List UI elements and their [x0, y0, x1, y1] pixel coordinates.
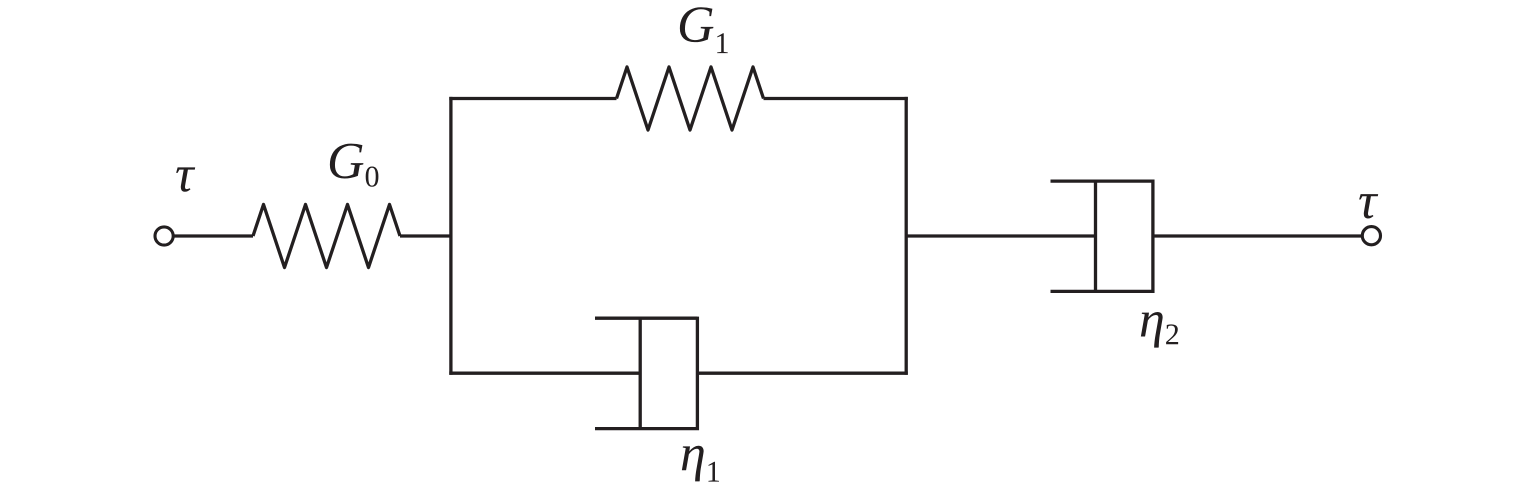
spring G0 — [253, 205, 400, 268]
wire from left terminal to spring G0 — [170, 234, 253, 237]
terminal (right) — [1362, 227, 1380, 245]
wire: right vertical of parallel branch — [905, 97, 908, 375]
label tau (right terminal) — [1359, 194, 1378, 218]
dashpot eta1 cylinder — [595, 317, 697, 431]
wire: bottom branch left segment to dashpot eta1 piston — [449, 372, 640, 375]
label G0 (spring G0 value) — [330, 144, 379, 187]
spring G1 — [617, 67, 764, 130]
label G1 (spring G1 value) — [680, 7, 728, 53]
label eta2 (dashpot eta2 value) — [1141, 312, 1178, 348]
dashpot eta1 piston — [639, 318, 642, 428]
dashpot eta2 cylinder — [1051, 180, 1153, 294]
label tau (left terminal) — [176, 167, 195, 191]
wire: top branch left segment — [449, 97, 616, 100]
dashpot eta2 piston — [1094, 181, 1097, 291]
label eta1 (dashpot eta1 value) — [682, 446, 719, 482]
wire from parallel box to dashpot eta2 piston — [906, 234, 1095, 237]
wire: left vertical of parallel branch — [449, 97, 452, 375]
wire from dashpot eta2 to right terminal — [1153, 234, 1366, 237]
terminal (left) — [155, 227, 173, 245]
wire: top branch right segment — [764, 97, 908, 100]
wire from spring G0 to parallel box — [400, 234, 451, 237]
wire: bottom branch right segment from dashpot eta1 — [697, 372, 907, 375]
